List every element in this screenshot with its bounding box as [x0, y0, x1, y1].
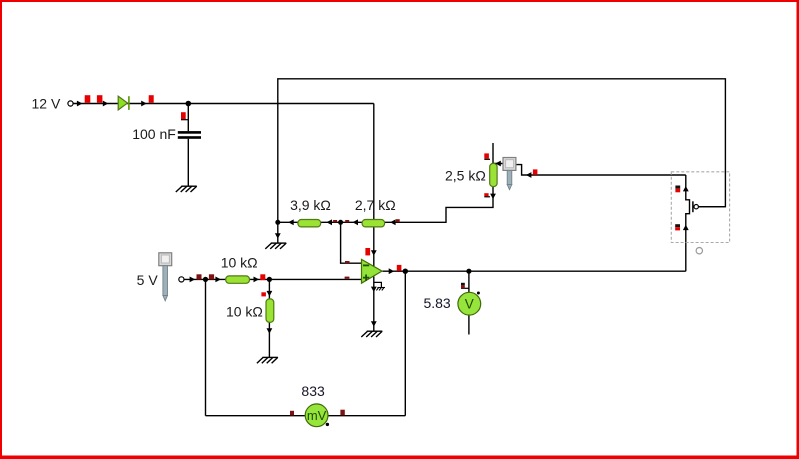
wire mosfet drain-source leads — [686, 175, 690, 271]
voltmeter V1 — [458, 292, 481, 315]
wire inverting input — [341, 222, 362, 263]
svg-text:3,9 kΩ: 3,9 kΩ — [290, 197, 331, 213]
wire op-amp output — [382, 270, 685, 272]
svg-text:5 V: 5 V — [137, 272, 159, 288]
millivoltmeter M1 — [305, 404, 328, 427]
ground G5 op-amp reference mini — [376, 288, 385, 291]
op-amp U1 — [362, 259, 383, 283]
node voltmeter junction — [466, 269, 471, 274]
meter polarity dot voltmeter — [477, 292, 480, 295]
wire resistor chain row — [278, 187, 493, 223]
wire top feedback rail — [278, 79, 726, 223]
wire 2.5k top stub — [493, 143, 503, 164]
wire 12V rail horizontal — [73, 103, 374, 105]
voltage level bars red — [85, 95, 538, 296]
ground G2 3.9k node — [265, 243, 286, 249]
voltmeter level bar two-tone — [461, 283, 465, 289]
mosfet source bar two-tone — [675, 224, 680, 230]
wire bottom mV loop — [206, 415, 406, 417]
terminal 5V input — [179, 277, 184, 282]
ground G1 capacitor — [176, 186, 197, 192]
svg-text:mV: mV — [307, 408, 327, 423]
wire probe to mosfet drain — [516, 165, 686, 175]
wire output to mV loop — [404, 271, 406, 416]
svg-text:5.83: 5.83 — [423, 295, 450, 311]
mosfet drain bar two-tone — [675, 186, 680, 193]
svg-text:10 kΩ: 10 kΩ — [226, 303, 263, 319]
wire voltmeter branch — [468, 271, 470, 334]
current arrows — [77, 101, 689, 334]
transistor Q1 gate pin circle — [694, 205, 698, 209]
resistor R1 3.9k — [298, 220, 321, 227]
transistor Q1 gate plate — [692, 201, 694, 212]
resistor R2 2.7k — [362, 220, 385, 227]
transistor Q1 body pin circle — [696, 248, 702, 254]
diode D1 — [118, 96, 129, 110]
resistor R4 10k horizontal — [226, 276, 250, 283]
wire 5V node down — [205, 279, 207, 415]
wire op-amp positive supply — [373, 104, 375, 267]
transistor Q1 mosfet dashed enclosure — [671, 172, 729, 243]
capacitor C1 100nF — [178, 131, 201, 139]
terminal 12V input — [68, 101, 73, 106]
meter polarity dot millivoltmeter — [326, 423, 329, 426]
ground G4 op-amp supply — [361, 331, 382, 337]
node output junction — [403, 269, 408, 274]
wire non-inverting input — [184, 278, 361, 280]
wire 10k divider branch — [268, 279, 270, 357]
wire mosfet gate — [698, 206, 725, 208]
probe P1 2.5k sense — [503, 158, 516, 190]
svg-text:12 V: 12 V — [32, 96, 61, 112]
node 12V-cap junction — [186, 101, 192, 107]
svg-text:833: 833 — [301, 383, 325, 399]
wire op-amp negative supply to ground — [373, 277, 375, 332]
svg-text:2,5 kΩ: 2,5 kΩ — [445, 168, 486, 184]
wire 3.9k to ground — [277, 222, 279, 243]
svg-text:V: V — [465, 297, 474, 312]
resistor R3 2.5k — [490, 163, 497, 186]
wire op-amp reference stub — [374, 282, 382, 287]
voltage level bars maroon — [197, 219, 400, 415]
svg-text:10 kΩ: 10 kΩ — [221, 254, 258, 270]
node 5V junction — [203, 277, 208, 282]
node 3.9k left junction — [275, 220, 280, 225]
node feedback junction — [338, 220, 343, 225]
wire capacitor branch — [187, 104, 189, 187]
probe P2 5V source — [159, 253, 172, 301]
ground G3 10k divider — [257, 357, 278, 363]
svg-text:100 nF: 100 nF — [132, 126, 176, 142]
resistor R5 10k vertical — [266, 299, 274, 322]
node divider junction — [267, 277, 272, 282]
voltage bar ticks black — [181, 120, 490, 289]
svg-text:2,7 kΩ: 2,7 kΩ — [355, 197, 396, 213]
